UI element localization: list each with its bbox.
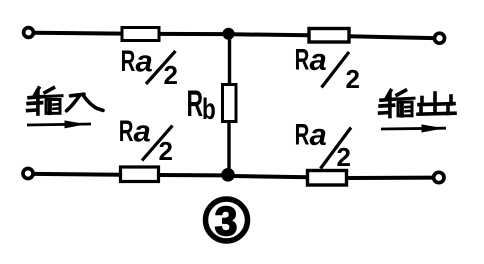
svg-text:b: b [202,92,216,126]
text output word 出 [418,93,455,114]
svg-text:3: 3 [215,198,238,244]
terminal bottom-left [23,169,33,179]
svg-text:a: a [136,44,153,79]
figure number circled 3 [206,198,248,244]
node junction top [223,28,235,40]
label Rb [187,82,216,125]
wire top-middle-left segment [159,32,226,36]
wire bottom-middle-right segment [233,176,309,177]
wire bottom-right segment [347,176,434,180]
wire bottom-middle-left segment [159,173,223,177]
text output word 输 [380,90,414,116]
resistor R1 top-left Ra/2 [122,28,159,41]
label Ra/2 bottom-left [119,114,173,167]
resistor R4 bottom-right Ra/2 [308,171,347,186]
svg-text:R: R [295,44,310,77]
node junction bottom [221,168,235,182]
wire bottom-left segment [33,172,122,177]
svg-text:R: R [121,45,136,78]
terminal bottom-right [434,172,444,182]
svg-text:2: 2 [337,142,351,172]
resistor Rb vertical [223,85,237,122]
arrow input [27,120,91,128]
svg-text:2: 2 [346,64,360,94]
resistor R2 top-right Ra/2 [309,29,349,43]
resistor R3 bottom-left Ra/2 [121,167,159,182]
terminal top-right [435,33,445,43]
svg-text:a: a [134,114,151,149]
terminal top-left [24,28,34,38]
wire top-middle-right segment [232,32,310,37]
svg-text:R: R [187,82,204,124]
svg-text:a: a [310,117,327,152]
wire vertical lower segment [227,121,230,175]
text input word 入 [67,94,104,111]
wire top-right segment [349,36,435,38]
svg-text:a: a [310,42,327,77]
text input word 输 [28,88,62,114]
svg-text:R: R [119,115,134,148]
label Ra/2 bottom-right [295,117,351,172]
label Ra/2 top-right [295,42,360,94]
wire top-left segment [34,31,124,36]
arrow output [381,124,446,132]
svg-text:2: 2 [159,136,173,166]
svg-text:2: 2 [164,60,178,90]
wire vertical upper segment [228,34,231,86]
svg-text:R: R [295,119,310,152]
label Ra/2 top-left [121,44,178,91]
